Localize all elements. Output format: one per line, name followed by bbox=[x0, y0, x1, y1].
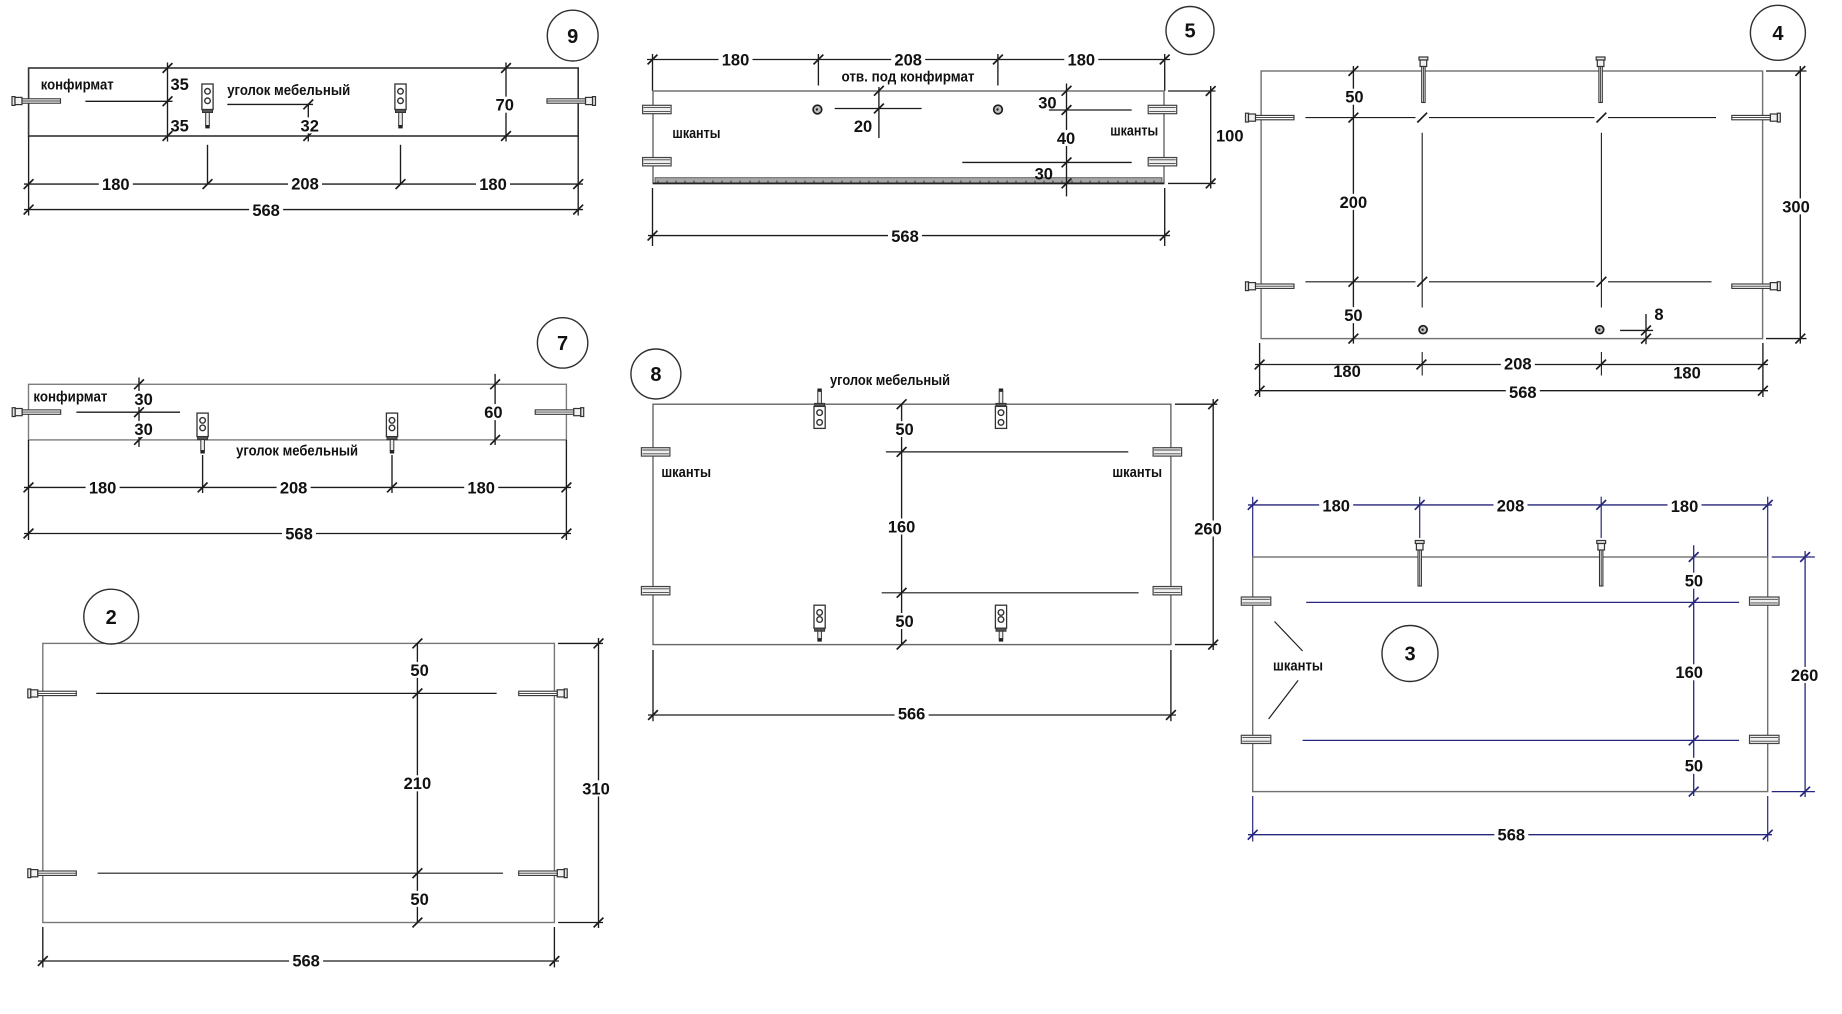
svg-text:50: 50 bbox=[1344, 307, 1362, 325]
svg-text:уголок мебельный: уголок мебельный bbox=[227, 82, 350, 99]
part 9 furniture bracket 2 bbox=[395, 84, 406, 128]
svg-text:568: 568 bbox=[1509, 384, 1537, 402]
part 8 dowel bottom-right bbox=[1153, 587, 1182, 595]
part 8 dim 260 bbox=[1175, 399, 1225, 650]
part 2 screw top-left bbox=[28, 689, 77, 698]
svg-text:208: 208 bbox=[894, 51, 922, 69]
svg-text:50: 50 bbox=[410, 891, 428, 909]
part 9 konfirmat leader line bbox=[85, 96, 172, 106]
part 7 confirmat screw left bbox=[12, 408, 61, 417]
svg-text:160: 160 bbox=[888, 518, 916, 536]
part 9 label ugolok mebelnyj bbox=[227, 82, 350, 99]
part 3 dowel bottom-right bbox=[1750, 735, 1780, 743]
part 7 confirmat screw right bbox=[535, 408, 584, 417]
part 7 extension bracket1 bbox=[202, 455, 204, 493]
part 9 dim 70 line bbox=[493, 63, 517, 142]
svg-text:конфирмат: конфирмат bbox=[33, 389, 107, 406]
part 7 label ugolok mebelnyj bbox=[236, 443, 358, 460]
svg-text:35: 35 bbox=[171, 76, 189, 94]
svg-text:50: 50 bbox=[1685, 758, 1703, 776]
part 3 extension screw1 bbox=[1419, 497, 1421, 538]
part 5 dim 30-40-30 bbox=[962, 84, 1131, 197]
part 3 shkanty leader up bbox=[1275, 622, 1303, 652]
part 3 dowel bottom-left bbox=[1241, 735, 1271, 743]
svg-text:568: 568 bbox=[285, 525, 313, 543]
part 3 extension top-right bbox=[1767, 497, 1769, 557]
svg-text:160: 160 bbox=[1675, 664, 1703, 682]
part 5 dim 568 bbox=[648, 228, 1170, 246]
part 9 panel outline bbox=[29, 68, 579, 136]
svg-text:180: 180 bbox=[1671, 498, 1699, 516]
part 2 inner line row2 bbox=[98, 872, 503, 874]
part 5 hole 2 bbox=[994, 105, 1003, 114]
part 5 label otv pod konfirmat bbox=[842, 68, 975, 85]
svg-text:568: 568 bbox=[1498, 827, 1526, 845]
part 3 inner line row1 bbox=[1306, 598, 1739, 608]
part 4 inner vertical 2 bbox=[1600, 133, 1602, 376]
svg-text:30: 30 bbox=[1035, 166, 1053, 184]
part 5 extension bottom-right bbox=[1164, 188, 1166, 246]
svg-text:30: 30 bbox=[134, 421, 152, 439]
svg-text:180: 180 bbox=[1673, 365, 1701, 383]
part 4 dim 180-208-180 bbox=[1255, 355, 1768, 382]
part 9 extension bracket2 bbox=[400, 145, 402, 184]
part 9 dim 568 bbox=[24, 202, 583, 220]
part 4 side screw bottom-right bbox=[1732, 282, 1781, 291]
svg-text:35: 35 bbox=[171, 118, 189, 136]
part 9 dim 180-208-180 bbox=[24, 175, 583, 194]
svg-text:4: 4 bbox=[1772, 23, 1784, 45]
svg-text:208: 208 bbox=[291, 175, 319, 193]
part 2 screw top-right bbox=[519, 689, 568, 698]
svg-text:180: 180 bbox=[102, 176, 130, 194]
svg-text:уголок мебельный: уголок мебельный bbox=[236, 443, 358, 460]
part 5 hole 1 bbox=[813, 105, 822, 114]
part 2 inner line row1 bbox=[96, 692, 496, 694]
part 2 dim 310 bbox=[558, 638, 613, 928]
part 4 dim 8 bbox=[1620, 306, 1663, 344]
part 7 furniture bracket 1 bbox=[197, 413, 208, 453]
part 4 hole 2 bbox=[1596, 326, 1604, 334]
svg-text:20: 20 bbox=[854, 118, 872, 136]
part 4 extension bottom-left bbox=[1259, 343, 1261, 397]
svg-text:шканты: шканты bbox=[672, 125, 720, 142]
part 4 top screw 1 bbox=[1419, 57, 1428, 103]
part 8 panel outline bbox=[653, 404, 1171, 644]
svg-text:70: 70 bbox=[496, 97, 514, 115]
part 8 top bracket 2 bbox=[995, 389, 1006, 429]
part 3 extension bottom-left bbox=[1252, 796, 1254, 842]
part 5 dowel top-left bbox=[643, 105, 672, 113]
part 5 label shkanty right bbox=[1110, 122, 1158, 139]
svg-text:3: 3 bbox=[1404, 644, 1415, 666]
part 4 dim 50-200-50 bbox=[1336, 66, 1370, 344]
svg-text:шканты: шканты bbox=[1112, 464, 1162, 481]
part 8 inner line row2 bbox=[882, 592, 1139, 594]
svg-text:60: 60 bbox=[484, 404, 502, 422]
part 7 extension right bbox=[565, 440, 567, 540]
svg-text:310: 310 bbox=[582, 780, 610, 798]
part 9 dim 35-35 line bbox=[163, 63, 189, 142]
part 8 inner line row1 bbox=[886, 451, 1128, 453]
part 8 bottom bracket 2 bbox=[995, 605, 1006, 641]
part 8 bottom bracket 1 bbox=[814, 605, 825, 641]
svg-text:9: 9 bbox=[567, 26, 578, 48]
svg-text:180: 180 bbox=[1322, 498, 1350, 516]
part 4 side screw top-left bbox=[1246, 113, 1295, 122]
part 4 panel outline bbox=[1261, 71, 1763, 339]
part 3 dim 260 bbox=[1772, 551, 1822, 797]
svg-text:180: 180 bbox=[89, 479, 117, 497]
svg-text:200: 200 bbox=[1340, 194, 1368, 212]
part 5 dowel bottom-left bbox=[643, 158, 672, 166]
part 7 extension left bbox=[28, 440, 30, 540]
part 9 dim 32 line bbox=[298, 104, 322, 141]
part 7 konfirmat leader line bbox=[76, 407, 180, 417]
part 9 circle label bbox=[547, 10, 598, 61]
part 3 top dim 180-208-180 bbox=[1248, 498, 1773, 516]
part 5 extension left bbox=[652, 54, 654, 91]
svg-text:50: 50 bbox=[1345, 89, 1363, 107]
part 5 top dim 180-208-180 bbox=[647, 51, 1170, 69]
part 3 inner line row2 bbox=[1303, 736, 1740, 746]
part 8 label shkanty right bbox=[1112, 464, 1162, 481]
part 3 shkanty leader down bbox=[1269, 680, 1299, 719]
part 5 extension right bbox=[1164, 54, 1166, 91]
part 7 label konfirmat bbox=[33, 389, 107, 406]
part 5 dim 100 bbox=[1168, 86, 1244, 189]
svg-text:260: 260 bbox=[1791, 667, 1819, 685]
part 4 top screw 2 bbox=[1596, 57, 1605, 103]
svg-text:566: 566 bbox=[898, 705, 926, 723]
svg-text:300: 300 bbox=[1782, 198, 1810, 216]
part 9 confirmat screw left bbox=[12, 97, 61, 106]
part 4 dim 300 bbox=[1766, 66, 1813, 344]
part 9 confirmat screw right bbox=[547, 97, 596, 106]
part 7 dim 60 line bbox=[481, 374, 505, 445]
svg-text:180: 180 bbox=[467, 479, 495, 497]
svg-text:568: 568 bbox=[891, 228, 919, 246]
part 2 dim 568 bbox=[38, 952, 559, 970]
part 9 label konfirmat bbox=[41, 76, 114, 93]
svg-text:шканты: шканты bbox=[1273, 658, 1323, 675]
part 9 extension left bbox=[28, 136, 30, 216]
part 7 furniture bracket 2 bbox=[386, 413, 397, 453]
svg-text:шканты: шканты bbox=[1110, 122, 1158, 139]
part 7 panel outline bbox=[29, 384, 567, 440]
part 3 dowel top-left bbox=[1241, 597, 1271, 605]
part 5 dowel top-right bbox=[1148, 105, 1177, 113]
svg-text:32: 32 bbox=[301, 117, 319, 135]
svg-text:100: 100 bbox=[1216, 128, 1244, 146]
part 5 extension hole2 bbox=[997, 54, 999, 86]
part 8 label shkanty left bbox=[661, 464, 711, 481]
svg-text:180: 180 bbox=[1333, 363, 1361, 381]
svg-text:отв. под конфирмат: отв. под конфирмат bbox=[842, 68, 975, 85]
part 5 edge band bbox=[653, 178, 1164, 184]
svg-text:30: 30 bbox=[1038, 95, 1056, 113]
part 3 top screw 2 bbox=[1597, 541, 1606, 587]
svg-text:260: 260 bbox=[1194, 520, 1222, 538]
part 4 side screw top-right bbox=[1732, 113, 1781, 122]
part 3 circle label bbox=[1382, 626, 1438, 682]
part 7 dim 568 bbox=[24, 525, 572, 543]
svg-text:180: 180 bbox=[722, 51, 750, 69]
part 5 dim 20 bbox=[835, 86, 922, 138]
part 4 side screw bottom-left bbox=[1246, 282, 1295, 291]
part 3 top screw 1 bbox=[1415, 541, 1424, 587]
svg-text:208: 208 bbox=[1504, 355, 1532, 373]
part 9 extension bracket1 bbox=[207, 145, 209, 184]
part 9 ugolok leader line bbox=[227, 100, 313, 110]
part 5 label shkanty left bbox=[672, 125, 720, 142]
part 7 extension bracket2 bbox=[391, 455, 393, 493]
part 7 dim 180-208-180 bbox=[24, 479, 572, 497]
svg-text:7: 7 bbox=[557, 333, 568, 355]
part 5 dowel bottom-right bbox=[1148, 158, 1177, 166]
part 4 extension bottom-right bbox=[1762, 343, 1764, 397]
part 4 inner line row2 bbox=[1305, 277, 1711, 287]
svg-text:50: 50 bbox=[895, 421, 913, 439]
svg-text:210: 210 bbox=[404, 775, 432, 793]
part 4 circle label bbox=[1750, 5, 1805, 60]
svg-text:конфирмат: конфирмат bbox=[41, 76, 114, 93]
part 3 extension screw2 bbox=[1600, 497, 1602, 538]
part 8 dowel bottom-left bbox=[641, 587, 670, 595]
part 4 hole 1 bbox=[1419, 326, 1427, 334]
svg-text:40: 40 bbox=[1057, 130, 1075, 148]
part 7 dim 30-30 line bbox=[132, 378, 156, 447]
part 2 screw bottom-right bbox=[519, 869, 568, 878]
part 4 dim 568 bbox=[1255, 384, 1768, 402]
svg-text:5: 5 bbox=[1184, 21, 1195, 43]
part 5 extension bottom-left bbox=[652, 188, 654, 246]
svg-text:30: 30 bbox=[134, 391, 152, 409]
svg-text:уголок мебельный: уголок мебельный bbox=[830, 372, 950, 389]
part 8 circle label bbox=[631, 349, 681, 399]
svg-text:8: 8 bbox=[650, 364, 661, 386]
part 8 dim 50-160-50 bbox=[885, 399, 919, 649]
part 2 extension bottom-right bbox=[553, 927, 555, 967]
part 3 label shkanty bbox=[1273, 658, 1323, 675]
svg-text:8: 8 bbox=[1654, 306, 1663, 324]
svg-text:2: 2 bbox=[106, 607, 117, 629]
part 5 circle label bbox=[1166, 7, 1214, 55]
part 4 inner vertical 1 bbox=[1421, 133, 1423, 376]
part 3 extension bottom-right bbox=[1767, 796, 1769, 842]
part 3 extension top-left bbox=[1252, 497, 1254, 557]
part 3 dowel top-right bbox=[1750, 597, 1780, 605]
svg-text:208: 208 bbox=[280, 479, 308, 497]
part 8 extension bottom-right bbox=[1170, 650, 1172, 721]
svg-text:180: 180 bbox=[1068, 51, 1096, 69]
svg-text:568: 568 bbox=[252, 202, 280, 220]
part 4 inner line row1 bbox=[1305, 113, 1716, 123]
part 8 dowel top-left bbox=[641, 448, 670, 456]
part 3 panel outline bbox=[1253, 557, 1768, 792]
svg-text:50: 50 bbox=[410, 662, 428, 680]
part 8 extension bottom-left bbox=[652, 650, 654, 721]
part 2 circle label bbox=[84, 589, 139, 644]
part 7 circle label bbox=[537, 318, 587, 368]
part 3 dim 50-160-50 bbox=[1672, 545, 1706, 796]
part 2 screw bottom-left bbox=[28, 869, 77, 878]
svg-text:180: 180 bbox=[479, 176, 507, 194]
part 9 extension right bbox=[577, 136, 579, 216]
part 8 label ugolok mebelnyj bbox=[830, 372, 950, 389]
part 9 furniture bracket 1 bbox=[202, 84, 213, 128]
part 2 extension bottom-left bbox=[42, 927, 44, 967]
part 8 dim 566 bbox=[648, 705, 1176, 723]
part 2 panel outline bbox=[43, 643, 555, 922]
svg-text:208: 208 bbox=[1497, 498, 1525, 516]
svg-text:568: 568 bbox=[292, 952, 320, 970]
part 8 dowel top-right bbox=[1153, 448, 1182, 456]
part 5 panel outline bbox=[653, 91, 1164, 184]
part 8 top bracket 1 bbox=[814, 389, 825, 429]
part 3 dim 568 bbox=[1248, 827, 1773, 845]
svg-text:50: 50 bbox=[1685, 573, 1703, 591]
svg-text:50: 50 bbox=[895, 613, 913, 631]
svg-text:шканты: шканты bbox=[661, 464, 711, 481]
part 2 dim 50-210-50 bbox=[400, 639, 434, 928]
part 5 extension hole1 bbox=[817, 54, 819, 86]
